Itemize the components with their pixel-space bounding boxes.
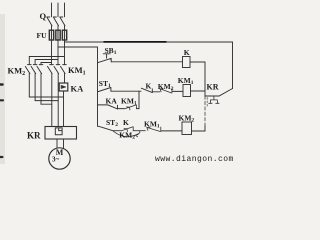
wire KM2 pole1 down bbox=[28, 74, 30, 97]
limit switch ST1 bbox=[98, 88, 111, 92]
wire KM1 pole1 down bbox=[51, 74, 53, 130]
contact KA rung3 bbox=[98, 105, 118, 109]
svg-text:KA: KA bbox=[71, 84, 85, 94]
wire L1 to fuse bbox=[51, 26, 53, 30]
wire rung1 to K coil bbox=[111, 61, 182, 63]
wire rung3 up to rung2 bbox=[136, 91, 139, 108]
wire L1 below fuse bbox=[51, 40, 53, 65]
contact KM1 NC rung4 bbox=[147, 127, 161, 132]
wire KM1 pole3 down to KA bbox=[64, 74, 66, 83]
wire KM2 rejoin pole1 bbox=[29, 96, 63, 98]
motor M circle bbox=[49, 148, 70, 169]
wire control bus top dark segment bbox=[104, 41, 166, 43]
svg-text:K: K bbox=[184, 48, 190, 57]
svg-text:FU: FU bbox=[37, 31, 48, 40]
wire rung4 bbox=[113, 130, 121, 132]
wire KM2 step phase2 to pole2 bbox=[35, 60, 58, 64]
wire L3 below fuse bbox=[64, 40, 66, 65]
wire KM2 rejoin pole3 bbox=[41, 103, 52, 105]
relay coil K bbox=[183, 57, 191, 68]
contactor coil KM2 bbox=[182, 122, 192, 135]
wire L2 below fuse bbox=[57, 40, 59, 65]
wire rung3 bbox=[118, 108, 125, 110]
thermal relay KR box bbox=[45, 127, 77, 140]
wire return bus lower (broken scan) bbox=[204, 96, 206, 125]
svg-text:K: K bbox=[146, 81, 152, 90]
relay KA box bbox=[59, 83, 68, 91]
contact KR thermal NC bbox=[205, 89, 233, 97]
wire L3 to fuse bbox=[64, 26, 66, 30]
wire rung2 to KM1 coil bbox=[172, 90, 183, 92]
contactor coil KM1 bbox=[183, 85, 191, 97]
wire KM1 coil to return bus bbox=[191, 90, 206, 92]
fuse FU1 bbox=[49, 30, 53, 40]
wire control feed (from L2 to left rail) bbox=[58, 47, 98, 126]
limit switch ST2 bbox=[98, 126, 114, 131]
scan edge artifacts bbox=[0, 83, 3, 85]
contactor KM2 pole 2 bbox=[31, 65, 37, 74]
wire L2 to fuse bbox=[57, 26, 59, 30]
KR heater element bbox=[55, 128, 62, 135]
KR release symbol bbox=[209, 96, 219, 103]
wire KM2 pole3 down bbox=[40, 74, 42, 105]
wire phase L3 top bbox=[64, 3, 66, 17]
contact KM2 NO parallel arc bbox=[113, 131, 140, 137]
svg-text:Q: Q bbox=[40, 11, 47, 21]
contact K rung4 bbox=[121, 127, 133, 132]
svg-text:K: K bbox=[123, 118, 129, 127]
contactor KM1 pole 3 bbox=[61, 65, 67, 74]
switch Q pole 3 bbox=[60, 17, 65, 26]
switch Q pole 1 bbox=[47, 17, 52, 26]
wire phase L2 top bbox=[57, 3, 59, 17]
KR linkage dashes bbox=[206, 98, 208, 108]
svg-text:KR: KR bbox=[27, 131, 41, 141]
wire KM2 rejoin pole2 bbox=[35, 100, 58, 102]
wire KM1 pole2 down bbox=[57, 74, 59, 129]
wire KM2 step phase3 to pole1 bbox=[29, 57, 64, 64]
fuse FU3 bbox=[62, 30, 66, 40]
contactor KM1 pole 1 bbox=[48, 65, 54, 74]
contact KM2 NC rung2 bbox=[160, 89, 172, 93]
contactor KM1 pole 2 bbox=[54, 65, 60, 74]
wire phase L1 top bbox=[51, 3, 53, 17]
svg-text:www.diangon.com: www.diangon.com bbox=[155, 155, 234, 164]
svg-text:KA: KA bbox=[106, 97, 118, 106]
pushbutton SB1 bbox=[98, 54, 111, 63]
contact K rung2 bbox=[141, 88, 152, 92]
wire rung2 mid bbox=[152, 91, 160, 93]
motor lead 1 bbox=[56, 139, 58, 148]
wire KA down bbox=[63, 91, 65, 130]
wire K coil to return bus bbox=[190, 62, 205, 96]
wire control bus top (from L3) bbox=[65, 42, 233, 89]
wire rung2 bbox=[111, 90, 141, 92]
wire KM2 pole2 down bbox=[34, 74, 36, 101]
fuse FU2 bbox=[56, 30, 60, 40]
contact KM1 NO rung3 bbox=[124, 105, 136, 110]
motor lead 2 bbox=[63, 139, 65, 148]
wire rung4 to KM2 coil bbox=[161, 130, 182, 132]
wire rung4 mid bbox=[133, 130, 145, 132]
wire KM2 coil to return bus bbox=[192, 125, 206, 131]
svg-text:3~: 3~ bbox=[52, 156, 60, 164]
svg-text:KR: KR bbox=[207, 82, 219, 91]
contactor KM2 pole 3 bbox=[37, 65, 43, 74]
contactor KM2 pole 1 bbox=[25, 65, 31, 74]
switch Q pole 2 bbox=[53, 17, 58, 26]
wire KM2 step phase1 to pole3 bbox=[41, 63, 52, 64]
